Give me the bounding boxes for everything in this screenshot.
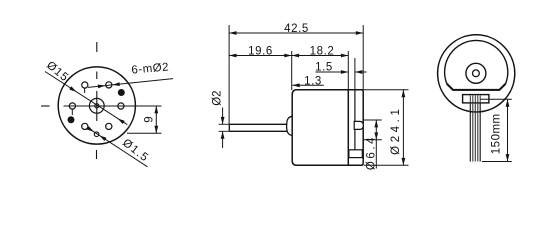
motor body outer circle: [58, 67, 135, 144]
svg-text:Ø24.1: Ø24.1: [390, 106, 402, 155]
inner face flat edge (thick): [447, 84, 506, 90]
vertical centerline top tick: [96, 42, 98, 52]
inner face flat-bottom profile: [445, 40, 508, 89]
dim 9 bottom extension: [127, 132, 162, 134]
dia6.4 boss top extension: [363, 119, 382, 121]
extension line cap seam: [354, 58, 356, 90]
hole 180deg tick: [71, 110, 73, 116]
svg-text:18.2: 18.2: [310, 45, 335, 57]
shaft center: [473, 70, 480, 77]
dia2 extension bottom: [219, 130, 230, 132]
svg-text:Ø6.4: Ø6.4: [366, 135, 378, 170]
terminal dot upper right: [118, 89, 125, 96]
terminal dot lower left: [68, 116, 75, 123]
6-m dia2 leader line: [88, 79, 173, 88]
extension line left (shaft tip): [228, 25, 230, 124]
dia6.4 dim line tail: [375, 140, 377, 169]
dim 42.5 line: [229, 32, 363, 34]
hole 120deg tick: [84, 88, 86, 93]
dia6.4 dim line: [375, 120, 377, 140]
dim 9 line: [155, 106, 157, 133]
end cap: [348, 90, 363, 166]
hole at 180deg: [69, 103, 75, 109]
dim 18.2 line: [292, 55, 349, 57]
vertical centerline bottom tick: [96, 150, 98, 159]
svg-text:6-mØ2: 6-mØ2: [131, 61, 170, 76]
center boss circle: [89, 98, 104, 113]
dia2 extension top: [219, 123, 230, 125]
extension line can rear edge: [347, 51, 349, 90]
svg-text:1.3: 1.3: [304, 75, 322, 87]
hole at 60deg: [106, 82, 112, 88]
small hole dia 1.5: [94, 132, 99, 137]
dia15 leader line: [45, 72, 127, 125]
hole at 240deg: [82, 123, 88, 129]
dia15 arrow lower: [116, 117, 124, 124]
svg-text:150mm: 150mm: [490, 113, 502, 154]
front bearing boss: [287, 116, 293, 135]
vertical centerline dash: [96, 72, 98, 80]
dim 150mm bottom extension: [482, 161, 512, 163]
front face outer circle: [438, 35, 515, 112]
dim 19.6 line: [229, 55, 292, 57]
shaft bottom edge: [229, 130, 287, 132]
connector crimp wires: [470, 95, 480, 103]
dia2 dim line upper: [222, 108, 224, 125]
vertical centerline through center: [96, 91, 98, 121]
dim 1.5 line right: [355, 71, 367, 73]
shaft top edge: [229, 123, 287, 125]
hole at 0deg: [118, 103, 124, 109]
dim 1.5 line left: [316, 71, 349, 73]
6-m dia2 arrow right: [112, 82, 120, 87]
svg-text:Ø2: Ø2: [212, 90, 224, 105]
svg-text:19.6: 19.6: [248, 45, 273, 57]
svg-text:42.5: 42.5: [284, 23, 309, 35]
extension line can front face: [291, 51, 293, 90]
svg-text:1.5: 1.5: [315, 62, 333, 74]
dia15 arrow upper: [69, 86, 77, 93]
horizontal centerline: [64, 105, 162, 107]
dia24.1 dim line: [402, 90, 404, 166]
dia2 dim line lower: [222, 131, 224, 148]
lead connector: [463, 95, 489, 103]
center shaft hole: [95, 104, 99, 108]
dia1.5 leader line: [89, 128, 148, 167]
end cap seam: [354, 90, 356, 150]
dia1.5 arrow upper: [87, 126, 95, 133]
dia24.1 extension top: [350, 89, 409, 91]
dim 150mm line: [507, 99, 509, 161]
terminal tab: [354, 121, 363, 129]
motor can body: [292, 90, 348, 166]
hole at 120deg: [82, 82, 88, 88]
svg-text:Ø1.5: Ø1.5: [120, 137, 151, 165]
shaft end: [228, 124, 230, 131]
6-m dia2 arrow left: [98, 84, 106, 89]
dim 150mm top extension: [481, 98, 512, 100]
bottom window: [349, 150, 362, 158]
horizontal centerline left tick: [41, 105, 50, 107]
dia1.5 arrow lower: [98, 134, 106, 141]
dia6.4 boss bottom extension: [363, 139, 382, 141]
extension line cap face: [362, 25, 364, 90]
svg-text:9: 9: [144, 116, 156, 122]
dia24.1 extension bottom: [364, 164, 409, 166]
lead wires: [470, 103, 480, 162]
bearing circle: [466, 63, 486, 83]
dim 1.3 line: [292, 84, 324, 86]
hole at 300deg: [106, 123, 112, 129]
